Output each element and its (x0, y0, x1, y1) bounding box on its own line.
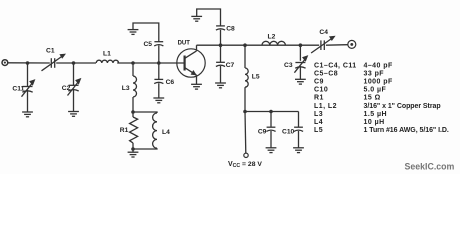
inductor L3 (133, 76, 137, 97)
capacitor C11 (variable) (22, 79, 36, 97)
wire C3 upper lead (299, 45, 301, 61)
transistor DUT (177, 49, 205, 77)
capacitor C7 (216, 62, 225, 66)
svg-text:15 Ω: 15 Ω (364, 95, 381, 102)
wire L5 lower lead (244, 87, 246, 111)
ground (emitter) (191, 84, 202, 89)
svg-text:C9: C9 (258, 129, 267, 136)
svg-text:L5: L5 (252, 74, 260, 81)
svg-text:C1–C4, C11: C1–C4, C11 (314, 62, 357, 69)
svg-text:L1: L1 (103, 50, 111, 57)
svg-text:L3: L3 (122, 85, 130, 92)
junction node Vcc tap (243, 110, 247, 114)
wire C11 upper lead (27, 63, 29, 87)
wire Vcc lead (244, 112, 247, 154)
svg-text:C2: C2 (62, 85, 71, 92)
junction node C11 tap (26, 61, 30, 65)
svg-text:C5–C8: C5–C8 (314, 70, 338, 77)
svg-text:C3: C3 (284, 62, 293, 69)
svg-text:C5: C5 (143, 41, 152, 48)
ground (C10) (293, 148, 304, 153)
svg-text:33 pF: 33 pF (364, 70, 385, 77)
wire L4 top link (133, 112, 157, 113)
wire C3 lower lead (299, 66, 301, 79)
ground (C2) (68, 112, 79, 117)
junction node R1/L4 bottom (131, 147, 135, 151)
wire L4 bottom link (133, 147, 157, 150)
wire base line (117, 62, 184, 64)
inductor L5 (245, 68, 248, 87)
junction node C5/C6 tap (157, 61, 161, 65)
wire collector riser (196, 45, 198, 51)
wire R1 lower lead (132, 143, 134, 152)
junction node C9 tap (269, 110, 273, 114)
wire C8 ground link (197, 9, 221, 26)
ground (C8) (191, 16, 202, 21)
svg-text:C1: C1 (46, 47, 55, 54)
svg-text:L2: L2 (268, 33, 276, 40)
wire C7 lower lead (220, 66, 222, 83)
svg-text:C11: C11 (12, 85, 24, 92)
svg-text:C8: C8 (226, 25, 235, 32)
wire C10 lower lead (298, 131, 300, 148)
wire L3-R1 lead (132, 97, 134, 117)
svg-text:R1: R1 (120, 127, 129, 134)
wire input line left (8, 62, 50, 64)
wire C2 lower lead (73, 89, 75, 112)
wire L3 upper lead (132, 63, 134, 76)
svg-text:5.0 µF: 5.0 µF (364, 87, 387, 94)
parts list table (314, 62, 449, 134)
wire C5 lower lead (158, 45, 160, 63)
wire C10 upper lead (298, 112, 300, 128)
ground (C7) (215, 83, 226, 88)
capacitor C8 (216, 26, 225, 30)
inductor L1 (96, 60, 118, 63)
resistor R1 (130, 117, 138, 143)
wire emitter lead (196, 75, 198, 84)
junction node C7/C8 tap (219, 43, 223, 47)
svg-text:C6: C6 (166, 79, 175, 86)
inductor L2 (262, 41, 285, 45)
ground (C5) (128, 30, 139, 35)
wire C2 upper lead (73, 63, 75, 85)
capacitor C1 (variable, series) (42, 54, 67, 71)
connector J2 (RF output) (348, 40, 356, 48)
svg-text:L4: L4 (314, 119, 323, 126)
capacitor C4 (variable, series) (311, 36, 336, 53)
ground (R1/L4) (128, 152, 139, 157)
svg-text:10 µH: 10 µH (364, 119, 385, 126)
svg-text:C7: C7 (226, 62, 235, 69)
inductor L4 (153, 113, 157, 148)
wire collector bus (197, 44, 320, 46)
svg-text:L5: L5 (314, 127, 323, 134)
wire input line mid (56, 62, 96, 64)
capacitor C10 (294, 127, 303, 131)
svg-text:3/16" x 1" Copper Strap: 3/16" x 1" Copper Strap (364, 103, 441, 110)
wire C6 upper lead (158, 63, 160, 79)
ground (C3) (295, 79, 306, 84)
wire C5 ground link (133, 23, 159, 42)
svg-text:L1, L2: L1, L2 (314, 103, 337, 110)
svg-text:C4: C4 (319, 29, 328, 36)
svg-text:C10: C10 (314, 87, 328, 94)
svg-text:VCC = 28 V: VCC = 28 V (228, 161, 262, 169)
wire C7 upper lead (220, 45, 222, 62)
svg-text:1.5 µH: 1.5 µH (364, 111, 387, 118)
svg-text:1 Turn #16 AWG, 5/16" I.D.: 1 Turn #16 AWG, 5/16" I.D. (364, 127, 449, 134)
junction node L5 tap (243, 43, 247, 47)
svg-text:4–40 pF: 4–40 pF (364, 62, 393, 69)
wire C9 upper lead (270, 112, 272, 128)
wire C11 lower lead (27, 90, 29, 112)
junction node R1/L4 top (131, 110, 135, 114)
capacitor C2 (variable) (68, 78, 82, 96)
svg-text:R1: R1 (314, 95, 324, 102)
ground (C11) (22, 112, 33, 117)
junction node L3 tap (131, 61, 135, 65)
capacitor C6 (154, 79, 163, 83)
junction node C2 tap (72, 61, 76, 65)
capacitor C5 (154, 42, 163, 46)
connector J1 (RF input) (2, 60, 8, 66)
svg-text:C10: C10 (282, 129, 295, 136)
wire L5 upper lead (244, 45, 246, 68)
capacitor C9 (266, 127, 275, 131)
wire C8 lower lead (220, 30, 222, 45)
wire bias line (245, 111, 299, 113)
svg-text:C9: C9 (314, 79, 324, 86)
svg-text:L3: L3 (314, 111, 323, 118)
svg-text:1000 pF: 1000 pF (364, 79, 393, 86)
terminal Vcc (244, 153, 248, 157)
svg-text:L4: L4 (162, 129, 170, 136)
wire C9 lower lead (270, 131, 272, 148)
wire C6 lower lead (158, 83, 160, 98)
svg-text:DUT: DUT (178, 40, 191, 46)
svg-text:SeekIC.com: SeekIC.com (405, 161, 455, 171)
junction node C3 tap (299, 43, 303, 47)
ground (C6) (153, 98, 164, 103)
capacitor C3 (variable) (294, 55, 308, 73)
wire output line (326, 44, 348, 47)
ground (C9) (266, 148, 277, 153)
